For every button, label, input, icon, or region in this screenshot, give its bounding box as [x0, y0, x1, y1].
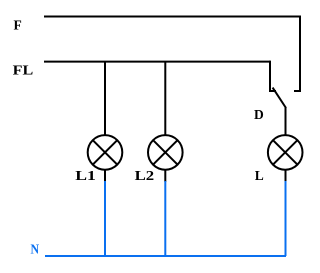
wire: FL to lamp L2 — [164, 62, 166, 136]
svg-text:FL: FL — [13, 63, 34, 78]
svg-text:L1: L1 — [75, 168, 96, 183]
wire: switch to lamp L — [285, 107, 287, 136]
wire: phase F horizontal line — [44, 16, 300, 18]
wire: lamp L1 bottom stub — [104, 169, 106, 182]
svg-text:L: L — [255, 168, 264, 183]
switch D blade — [273, 88, 286, 108]
wire: blue neutral drop from L2 — [164, 181, 166, 256]
lamp L — [268, 135, 303, 170]
svg-text:N: N — [31, 242, 40, 257]
wire: blue neutral drop from L1 — [104, 181, 106, 256]
wire: FL drop to switch left contact — [269, 61, 271, 91]
wire: lamp L2 bottom stub — [164, 169, 166, 182]
wire: neutral N horizontal line — [45, 255, 286, 257]
lamp L1 — [88, 135, 123, 170]
wire: FL horizontal line — [44, 61, 270, 63]
wire: blue neutral drop from L — [285, 181, 287, 256]
svg-text:D: D — [254, 107, 264, 122]
switch D left fixed contact foot — [269, 90, 276, 92]
svg-text:F: F — [14, 18, 22, 33]
switch D right fixed contact foot — [294, 90, 301, 92]
svg-text:L2: L2 — [135, 168, 155, 183]
wire: lamp L bottom stub — [285, 169, 287, 182]
wire: F drop to switch right contact — [299, 16, 301, 92]
lamp L2 — [148, 135, 183, 170]
wire: FL to lamp L1 — [104, 62, 106, 136]
